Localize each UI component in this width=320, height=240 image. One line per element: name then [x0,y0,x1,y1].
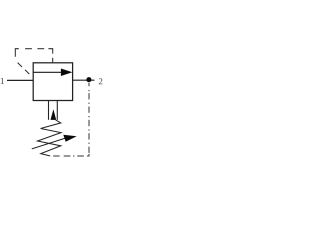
pilot line (dashed): from valve top, over the top-left, diagonal into left side [15,49,52,74]
port label 2 [99,78,103,84]
poppet cone (filled triangle in seat) [51,109,57,120]
drain / remote line (dash-dot vertical from node to bottom corner) [88,83,90,153]
drain / remote line (dash-dot horizontal from spring end to corner) [53,154,89,156]
junction node dot on port 2 [86,77,91,82]
port label 1 [1,78,4,84]
port 2 line (wire) [73,79,95,81]
valve seat (two vertical lines below body) [49,101,58,120]
spring (zigzag) [38,120,62,156]
port 1 line (wire) [7,79,33,81]
flow path arrow inside valve body [33,69,72,77]
adjustment arrow through spring [32,135,77,149]
valve body V1 (square envelope) [33,63,72,101]
